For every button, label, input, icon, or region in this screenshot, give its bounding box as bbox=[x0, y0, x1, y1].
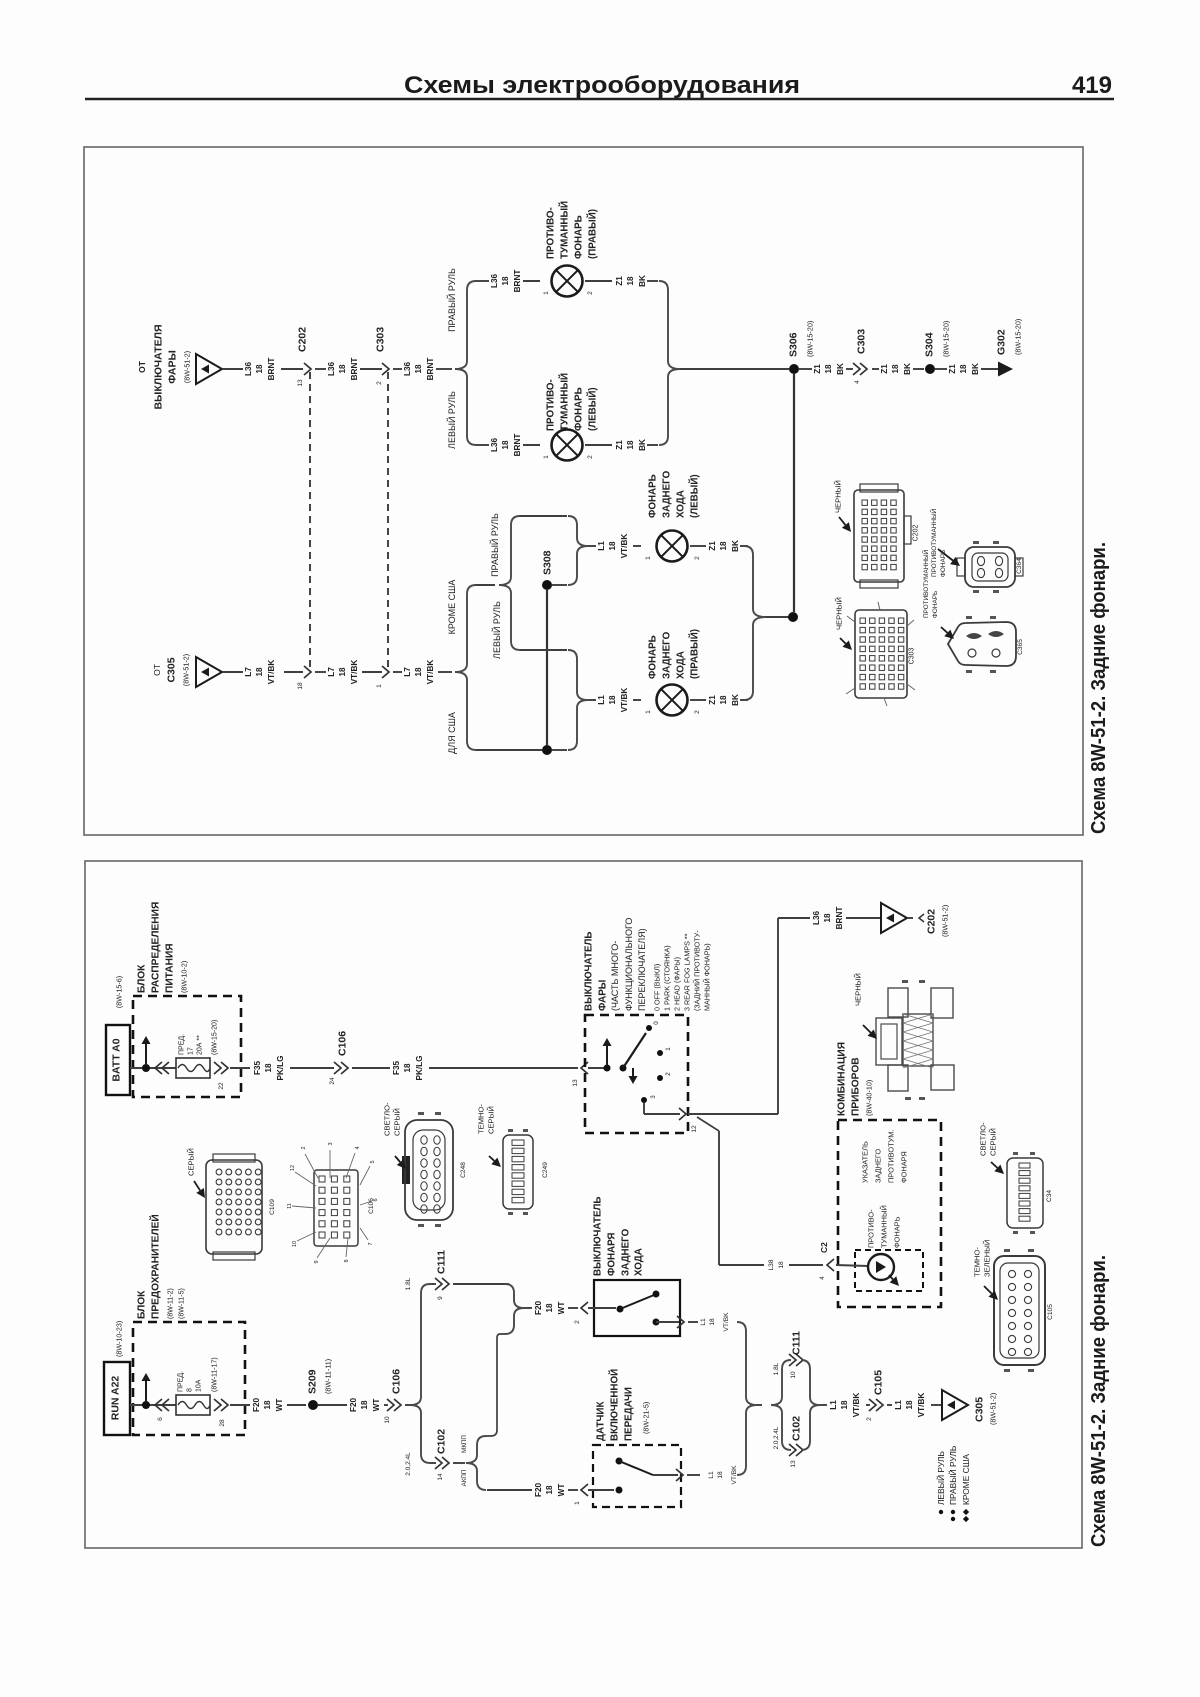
connector picture fog lamp upper pointer bbox=[938, 549, 960, 566]
wire bbox=[633, 699, 641, 701]
connector C202 label bbox=[297, 327, 309, 352]
merge brace backup lamp grounds bbox=[744, 546, 766, 700]
svg-text:ЗАДНЕГО: ЗАДНЕГО bbox=[661, 470, 672, 518]
svg-text:L1: L1 bbox=[708, 1471, 715, 1479]
indicator lamp sub-box (dashed) bbox=[855, 1250, 923, 1291]
indicator lamp bbox=[868, 1254, 899, 1286]
connector picture C248 color label bbox=[383, 1102, 402, 1136]
svg-text:18: 18 bbox=[403, 1063, 412, 1073]
connector picture C202 pointer bbox=[839, 517, 851, 532]
svg-text:(8W-15-20): (8W-15-20) bbox=[805, 321, 814, 357]
wire label L1 18 VT/BK bbox=[700, 1312, 730, 1332]
svg-text:1: 1 bbox=[645, 710, 652, 714]
wire bbox=[588, 699, 596, 701]
label 8W-15-6 ref bbox=[114, 976, 123, 1008]
pin 1 bbox=[543, 291, 550, 295]
svg-text:18: 18 bbox=[297, 682, 304, 690]
wire label L1 18 VT/BK bbox=[829, 1393, 861, 1418]
pin 6 bbox=[157, 1417, 164, 1421]
wire bbox=[552, 584, 567, 586]
svg-text:РАСПРЕДЕЛЕНИЯ: РАСПРЕДЕЛЕНИЯ bbox=[151, 902, 162, 993]
svg-text:СВЕТЛО-: СВЕТЛО- bbox=[979, 1122, 988, 1156]
svg-text:1: 1 bbox=[665, 1047, 672, 1051]
svg-text:2: 2 bbox=[694, 556, 701, 560]
svg-text:ЧЕРНЫЙ: ЧЕРНЫЙ bbox=[834, 480, 843, 513]
svg-text:4: 4 bbox=[355, 1146, 361, 1149]
svg-text:2: 2 bbox=[587, 455, 594, 459]
svg-text:BK: BK bbox=[903, 363, 912, 375]
label C202 8W-51-2 bbox=[926, 905, 950, 937]
svg-text:ПЕРЕКЛЮЧАТЕЛЯ): ПЕРЕКЛЮЧАТЕЛЯ) bbox=[637, 928, 647, 1011]
svg-text:Z1: Z1 bbox=[813, 364, 822, 374]
svg-text:BATT A0: BATT A0 bbox=[111, 1038, 123, 1081]
svg-text:3: 3 bbox=[650, 1095, 657, 1099]
pin 13 bbox=[790, 1460, 797, 1468]
pin 2 bbox=[694, 710, 701, 714]
backup switch pin symbol bbox=[581, 1302, 588, 1314]
svg-text:ПРОТИВОТУМАННЫЙ: ПРОТИВОТУМАННЫЙ bbox=[929, 508, 938, 577]
node junction bbox=[142, 1064, 150, 1072]
wire bbox=[766, 616, 789, 618]
wire bbox=[520, 515, 567, 517]
wire bbox=[647, 444, 658, 446]
label 8W-10-23 ref bbox=[114, 1321, 123, 1357]
svg-text:BK: BK bbox=[836, 363, 845, 375]
wire label Z1 18 BK bbox=[615, 275, 647, 287]
wire bbox=[687, 1474, 700, 1476]
wire label L36 18 BRNT bbox=[403, 358, 435, 381]
svg-text:1: 1 bbox=[645, 556, 652, 560]
label 2.0,2.4L bbox=[773, 1426, 780, 1449]
wire bbox=[846, 368, 853, 370]
svg-text:ЗАДНЕГО: ЗАДНЕГО bbox=[620, 1228, 631, 1276]
connector picture C249 ref bbox=[542, 1162, 549, 1178]
wire label F20 18 WT bbox=[349, 1398, 381, 1413]
splice S308 bbox=[542, 580, 552, 590]
ground junction bbox=[788, 612, 798, 622]
in-line connector symbol bbox=[214, 1399, 228, 1411]
svg-text:2: 2 bbox=[694, 710, 701, 714]
svg-text:VT/BK: VT/BK bbox=[350, 660, 359, 685]
svg-text:ФОНАРЬ: ФОНАРЬ bbox=[932, 591, 939, 618]
svg-text:0 OFF (ВЫКЛ): 0 OFF (ВЫКЛ) bbox=[652, 964, 661, 1011]
wire bbox=[222, 368, 243, 370]
svg-text:10: 10 bbox=[790, 1371, 797, 1379]
svg-text:BRNT: BRNT bbox=[350, 358, 359, 381]
wire bbox=[290, 1067, 334, 1069]
svg-text:(8W-40-10): (8W-40-10) bbox=[864, 1080, 873, 1116]
svg-text:Схема 8W-51-2. Задние фонари.: Схема 8W-51-2. Задние фонари. bbox=[1088, 1255, 1110, 1547]
svg-text:ВЫКЛЮЧАТЕЛЬ: ВЫКЛЮЧАТЕЛЬ bbox=[583, 932, 594, 1011]
wire label F20 18 WT bbox=[252, 1398, 284, 1413]
wire label L1 18 VT/BK bbox=[894, 1393, 926, 1418]
svg-text:18: 18 bbox=[338, 667, 347, 677]
wire label F35 18 PK/LG bbox=[253, 1055, 285, 1080]
wire bbox=[393, 671, 402, 673]
connector picture C34 pointer bbox=[991, 1162, 1004, 1174]
wire label Z1 18 BK bbox=[708, 694, 740, 706]
svg-text:5: 5 bbox=[370, 1160, 376, 1163]
connector picture C249 bbox=[503, 1129, 533, 1215]
wire S308 bus bbox=[546, 590, 548, 745]
svg-text:F35: F35 bbox=[392, 1061, 401, 1076]
connector picture C303 color label bbox=[835, 597, 844, 630]
wire label L36 18 BRNT bbox=[490, 270, 522, 293]
page header title bbox=[404, 72, 800, 99]
svg-text:ЧЕРНЫЙ: ЧЕРНЫЙ bbox=[835, 597, 844, 630]
merge brace after connectors bbox=[801, 1360, 820, 1450]
svg-text:ТЕМНО-: ТЕМНО- bbox=[477, 1104, 486, 1134]
pin 2 bbox=[694, 556, 701, 560]
svg-text:(8W-15-6): (8W-15-6) bbox=[114, 976, 123, 1008]
connector picture C105 color label bbox=[973, 1240, 992, 1277]
wire bbox=[690, 545, 706, 547]
pin 22 bbox=[218, 1082, 225, 1090]
headlamp switch output pin symbol bbox=[679, 1108, 686, 1120]
switch wiper bbox=[620, 1295, 654, 1309]
merge brace return wires bbox=[737, 1322, 757, 1475]
svg-text:C102: C102 bbox=[436, 1429, 448, 1454]
svg-text:L36: L36 bbox=[327, 361, 336, 376]
connector picture C248 ref bbox=[460, 1162, 467, 1178]
svg-text:0: 0 bbox=[653, 1021, 660, 1025]
connector C105 symbol bbox=[869, 1399, 883, 1411]
svg-text:СЕРЫЙ: СЕРЫЙ bbox=[989, 1128, 998, 1156]
fuse block (dashed box) bbox=[133, 1322, 245, 1435]
wire label Z1 18 BK bbox=[880, 363, 912, 375]
svg-text:2 HEAD (ФАРЫ): 2 HEAD (ФАРЫ) bbox=[672, 957, 681, 1011]
svg-text:L7: L7 bbox=[244, 667, 253, 677]
off-page arrow to rear fog lamps bbox=[881, 903, 907, 933]
svg-text:18: 18 bbox=[709, 1318, 716, 1326]
wire bbox=[315, 671, 326, 673]
svg-text:ФАРЫ: ФАРЫ bbox=[167, 350, 179, 384]
svg-text:(8W-21-5): (8W-21-5) bbox=[641, 1402, 650, 1434]
connector C303 in-line symbol bbox=[853, 363, 867, 375]
svg-text:18: 18 bbox=[414, 364, 423, 374]
svg-text:BRNT: BRNT bbox=[513, 270, 522, 293]
svg-text:WT: WT bbox=[557, 1484, 566, 1497]
wire bbox=[866, 1404, 870, 1406]
svg-text:18: 18 bbox=[905, 1400, 914, 1410]
connector picture C249 pointer bbox=[489, 1156, 501, 1167]
connector C111 label bbox=[436, 1250, 448, 1274]
svg-text:ПРОТИВОТУМ.: ПРОТИВОТУМ. bbox=[887, 1129, 896, 1183]
svg-text:ФУНКЦИОНАЛЬНОГО: ФУНКЦИОНАЛЬНОГО bbox=[624, 918, 634, 1011]
svg-text:4: 4 bbox=[854, 380, 861, 384]
svg-text:17: 17 bbox=[187, 1047, 194, 1055]
splice S306 bbox=[789, 364, 799, 374]
svg-text:L36: L36 bbox=[244, 361, 253, 376]
svg-text:S308: S308 bbox=[542, 550, 554, 575]
svg-text:C106: C106 bbox=[391, 1369, 403, 1394]
wire bbox=[287, 1404, 306, 1406]
svg-text:ЛЕВЫЙ РУЛЬ: ЛЕВЫЙ РУЛЬ bbox=[446, 391, 457, 449]
svg-text:1: 1 bbox=[543, 455, 550, 459]
connector picture instrument cluster color label bbox=[854, 973, 863, 1006]
split brace transmission branches bbox=[466, 1436, 486, 1490]
switch wiper bbox=[623, 1033, 646, 1068]
svg-text:ПРИБОРОВ: ПРИБОРОВ bbox=[851, 1057, 862, 1116]
svg-text:(8W-15-20): (8W-15-20) bbox=[941, 321, 950, 357]
wire label L36 18 BRNT bbox=[490, 434, 522, 457]
connector C202 in-line symbol bbox=[304, 666, 311, 678]
connector C303 label bbox=[375, 327, 387, 352]
connector picture C202 color label bbox=[834, 480, 843, 513]
label C305 8W-51-2 bbox=[974, 1393, 998, 1425]
wire label L1 18 VT/BK bbox=[708, 1465, 738, 1485]
svg-text:ХОДА: ХОДА bbox=[675, 651, 686, 679]
svg-text:ФОНАРЬ: ФОНАРЬ bbox=[573, 215, 584, 259]
connector picture C105 pointer bbox=[984, 1286, 998, 1300]
ground G302 bbox=[998, 362, 1013, 377]
svg-text:18: 18 bbox=[824, 364, 833, 374]
pin 2 bbox=[587, 291, 594, 295]
wire bbox=[230, 1067, 250, 1069]
svg-text:WT: WT bbox=[275, 1399, 284, 1412]
svg-text:ЗЕЛЕНЫЙ: ЗЕЛЕНЫЙ bbox=[983, 1240, 992, 1277]
svg-text:C105: C105 bbox=[1047, 1304, 1054, 1320]
svg-text:2.0,2.4L: 2.0,2.4L bbox=[773, 1426, 780, 1449]
pin 4 bbox=[819, 1276, 826, 1280]
wire bbox=[453, 1283, 509, 1285]
in-line connector symbol bbox=[155, 1399, 169, 1411]
wire ground bus bbox=[793, 374, 795, 612]
wire bbox=[588, 1307, 616, 1309]
svg-text:(8W-11-17): (8W-11-17) bbox=[211, 1357, 218, 1392]
svg-text:(8W-51-2): (8W-51-2) bbox=[182, 351, 191, 383]
sensor output pin symbol bbox=[676, 1469, 683, 1481]
svg-text:8: 8 bbox=[344, 1259, 350, 1262]
lamp: backup lamp (right) bbox=[657, 685, 688, 716]
svg-text:Z1: Z1 bbox=[708, 695, 717, 705]
svg-text:ВКЛЮЧЕННОЙ: ВКЛЮЧЕННОЙ bbox=[608, 1369, 620, 1441]
svg-text:RUN A22: RUN A22 bbox=[110, 1376, 122, 1421]
wire bbox=[281, 368, 303, 370]
svg-text:ФОНАРЬ: ФОНАРЬ bbox=[893, 1216, 902, 1248]
svg-text:18: 18 bbox=[719, 695, 728, 705]
connector picture C106 face bbox=[292, 1150, 372, 1258]
svg-text:2: 2 bbox=[866, 1417, 873, 1421]
wire bbox=[846, 917, 882, 919]
svg-text:ФОНАРЬ: ФОНАРЬ bbox=[573, 387, 584, 431]
wire bbox=[647, 280, 658, 282]
pin 2 bbox=[866, 1417, 873, 1421]
connector picture C303 pointer bbox=[840, 638, 852, 650]
svg-text:C2: C2 bbox=[819, 1242, 829, 1253]
svg-text:1 PARK (СТОЯНКА): 1 PARK (СТОЯНКА) bbox=[662, 945, 671, 1011]
svg-text:18: 18 bbox=[264, 1063, 273, 1073]
off-page arrow from headlamp switch bbox=[196, 354, 222, 384]
svg-text:14: 14 bbox=[437, 1473, 444, 1481]
svg-text:ФОНАРЯ: ФОНАРЯ bbox=[606, 1233, 617, 1276]
wire bbox=[230, 1404, 250, 1406]
svg-text:ФОНАРЬ: ФОНАРЬ bbox=[647, 635, 658, 679]
wire bbox=[568, 1307, 578, 1309]
svg-text:1: 1 bbox=[574, 1501, 581, 1505]
label for USA bbox=[447, 712, 457, 754]
svg-text:BRNT: BRNT bbox=[513, 434, 522, 457]
svg-text:БЛОК: БЛОК bbox=[137, 964, 148, 993]
connector picture C303 ref label bbox=[908, 648, 915, 665]
svg-text:ПРЕДОХРАНИТЕЛЕЙ: ПРЕДОХРАНИТЕЛЕЙ bbox=[149, 1214, 162, 1319]
svg-text:18: 18 bbox=[823, 913, 832, 923]
wire bbox=[430, 1462, 436, 1464]
ground G302 label bbox=[996, 319, 1023, 355]
svg-text:1: 1 bbox=[543, 291, 550, 295]
svg-text:13: 13 bbox=[790, 1460, 797, 1468]
svg-text:VT/BK: VT/BK bbox=[731, 1465, 738, 1485]
svg-text:L1: L1 bbox=[829, 1400, 838, 1410]
wire bbox=[680, 368, 789, 370]
connector C102 symbol bbox=[435, 1457, 449, 1469]
svg-text:18: 18 bbox=[959, 364, 968, 374]
svg-text:BRNT: BRNT bbox=[835, 907, 844, 930]
wire bbox=[568, 1489, 578, 1491]
wire bbox=[585, 280, 612, 282]
wire label Z1 18 BK bbox=[813, 363, 845, 375]
svg-text:S306: S306 bbox=[788, 332, 800, 357]
svg-text:C248: C248 bbox=[460, 1162, 467, 1178]
wire bbox=[981, 368, 998, 370]
legend except USA bbox=[961, 1454, 971, 1523]
wire label L1 18 VT/BK bbox=[597, 534, 629, 559]
node junction bbox=[142, 1401, 150, 1409]
merge brace fog lamp grounds bbox=[659, 281, 680, 445]
sensor contact bbox=[616, 1487, 623, 1494]
pin 1 bbox=[645, 556, 652, 560]
svg-text:PK/LG: PK/LG bbox=[276, 1055, 285, 1080]
svg-text:L36: L36 bbox=[812, 910, 821, 925]
power distribution centre (dashed box) bbox=[133, 996, 241, 1097]
svg-text:10: 10 bbox=[384, 1416, 391, 1424]
merge brace to left backup lamp bbox=[568, 516, 588, 585]
connector picture left grid bbox=[206, 1154, 262, 1260]
svg-text:(ПРАВЫЙ): (ПРАВЫЙ) bbox=[586, 209, 598, 259]
connector C105 label bbox=[873, 1370, 885, 1395]
svg-text:C105: C105 bbox=[873, 1370, 885, 1395]
backup lamp switch box bbox=[594, 1280, 680, 1336]
svg-text:БЛОК: БЛОК bbox=[137, 1290, 148, 1319]
svg-text:10: 10 bbox=[292, 1241, 298, 1247]
svg-text:18: 18 bbox=[338, 364, 347, 374]
pin 18 bbox=[297, 682, 304, 690]
arrow to B+ bbox=[142, 1036, 151, 1066]
wire bbox=[653, 1474, 678, 1476]
svg-text:(8W-10-23): (8W-10-23) bbox=[114, 1321, 123, 1357]
label: from C305 bbox=[152, 654, 191, 686]
svg-text:12: 12 bbox=[691, 1125, 698, 1133]
lamp: backup lamp (left) bbox=[657, 531, 688, 562]
svg-text:VT/BK: VT/BK bbox=[620, 534, 629, 559]
svg-text:1.8L: 1.8L bbox=[405, 1277, 412, 1290]
svg-text:2: 2 bbox=[376, 381, 383, 385]
label 1.8L bbox=[405, 1277, 412, 1290]
svg-text:ФОНАРЬ: ФОНАРЬ bbox=[647, 474, 658, 518]
figure 2 border bbox=[85, 861, 1082, 1548]
splice brace to RH/LH drive fog-lamp branches bbox=[455, 281, 476, 445]
wire bbox=[130, 1067, 176, 1069]
svg-text:C364: C364 bbox=[1016, 558, 1023, 574]
wire bbox=[523, 280, 540, 282]
label right-hand drive bbox=[446, 268, 457, 332]
svg-text:3: 3 bbox=[328, 1142, 334, 1145]
contact 3 bbox=[641, 1095, 657, 1103]
connector picture fog lamp lower pointer bbox=[941, 627, 954, 639]
svg-text:L36: L36 bbox=[403, 361, 412, 376]
connector picture C106 face pin numbers bbox=[287, 1142, 379, 1263]
pin 10 bbox=[790, 1371, 797, 1379]
svg-text:C365: C365 bbox=[1017, 639, 1024, 655]
svg-text:ПРЕД.: ПРЕД. bbox=[177, 1371, 184, 1392]
wire bbox=[740, 699, 748, 701]
svg-text:C106: C106 bbox=[337, 1031, 349, 1056]
svg-text:(ЗАДНИЙ ПРОТИВОТУ-: (ЗАДНИЙ ПРОТИВОТУ- bbox=[692, 930, 701, 1011]
svg-text:C305: C305 bbox=[974, 1397, 986, 1422]
svg-text:3 REAR FOG LAMPS **: 3 REAR FOG LAMPS ** bbox=[682, 933, 691, 1011]
connector C303 in-line symbol bbox=[382, 363, 389, 375]
figure 1 border bbox=[84, 147, 1083, 835]
instrument cluster label bbox=[837, 1042, 874, 1116]
svg-text:VT/BK: VT/BK bbox=[917, 1393, 926, 1418]
switch contact bbox=[617, 1306, 624, 1313]
wire label L7 18 VT/BK bbox=[244, 660, 276, 685]
svg-text:КРОМЕ США: КРОМЕ США bbox=[447, 580, 457, 635]
svg-text:Z1: Z1 bbox=[880, 364, 889, 374]
sensor pin symbol bbox=[581, 1484, 588, 1496]
wire bbox=[688, 1321, 698, 1323]
svg-text:1.8L: 1.8L bbox=[773, 1362, 780, 1375]
connector C303 boundary (dashed) bbox=[387, 372, 389, 670]
pin 1 bbox=[543, 455, 550, 459]
svg-text:18: 18 bbox=[717, 1471, 724, 1479]
svg-text:ПРАВЫЙ РУЛЬ: ПРАВЫЙ РУЛЬ bbox=[947, 1445, 958, 1505]
splice S308 lower junction bbox=[542, 745, 552, 755]
wire bbox=[520, 649, 567, 651]
splice S308 label bbox=[542, 550, 554, 575]
label left-hand drive bbox=[446, 391, 457, 449]
svg-text:C305: C305 bbox=[166, 657, 178, 682]
svg-text:2: 2 bbox=[301, 1146, 307, 1149]
svg-text:ПИТАНИЯ: ПИТАНИЯ bbox=[165, 943, 176, 993]
fuse 17 label bbox=[178, 1020, 218, 1055]
power distribution centre label bbox=[137, 902, 189, 993]
label MKPP bbox=[461, 1435, 468, 1453]
svg-text:C106: C106 bbox=[368, 1198, 375, 1214]
connector picture fog lamp upper label bbox=[929, 508, 947, 577]
svg-text:1: 1 bbox=[376, 684, 383, 688]
label backup lamp left bbox=[647, 470, 700, 518]
svg-text:(8W-51-2): (8W-51-2) bbox=[940, 905, 949, 937]
wire bbox=[430, 1283, 436, 1285]
svg-text:СЕРЫЙ: СЕРЫЙ bbox=[393, 1108, 402, 1136]
svg-text:ЗАДНЕГО: ЗАДНЕГО bbox=[874, 1149, 883, 1183]
svg-text:18: 18 bbox=[545, 1303, 554, 1313]
svg-text:ВЫКЛЮЧАТЕЛЯ: ВЫКЛЮЧАТЕЛЯ bbox=[153, 324, 165, 409]
pin 28 bbox=[219, 1419, 226, 1427]
wire bbox=[907, 914, 924, 922]
wire bbox=[935, 368, 947, 370]
wire label L36 18 BRNT bbox=[812, 907, 844, 930]
wire bbox=[690, 699, 706, 701]
svg-text:ТУМАННЫЙ: ТУМАННЫЙ bbox=[558, 201, 570, 259]
wire bbox=[405, 1404, 410, 1406]
legend right-hand drive bbox=[947, 1445, 958, 1521]
svg-text:18: 18 bbox=[778, 1261, 785, 1269]
wire bbox=[487, 1489, 532, 1491]
connector C106 label bbox=[337, 1031, 349, 1056]
svg-text:C102: C102 bbox=[791, 1416, 803, 1441]
